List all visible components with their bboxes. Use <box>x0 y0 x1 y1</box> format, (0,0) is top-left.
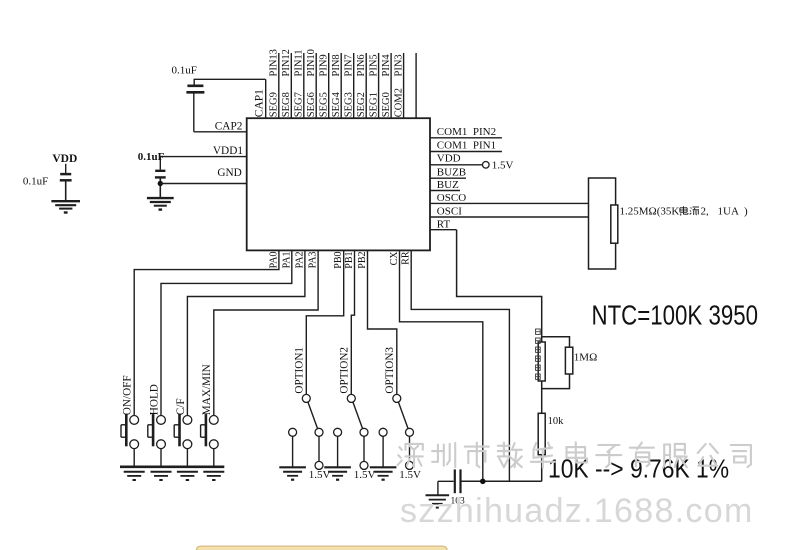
svg-text:BUZB: BUZB <box>437 166 466 178</box>
svg-text:PIN9: PIN9 <box>319 54 330 76</box>
svg-text:RT: RT <box>437 218 451 230</box>
svg-text:VDD: VDD <box>437 153 461 165</box>
svg-text:GND: GND <box>217 167 241 179</box>
svg-text:1.25MΩ(35K,: 1.25MΩ(35K, <box>620 206 683 218</box>
svg-text:PIN11: PIN11 <box>294 49 305 76</box>
svg-text:szzhihuadz.1688.com: szzhihuadz.1688.com <box>400 492 754 530</box>
svg-text:PIN6: PIN6 <box>356 54 367 76</box>
svg-text:PA3: PA3 <box>308 252 319 269</box>
svg-text:PA0: PA0 <box>268 252 279 269</box>
svg-text:2,: 2, <box>701 206 710 218</box>
svg-text:): ) <box>744 206 748 218</box>
svg-text:SEG0: SEG0 <box>381 92 392 117</box>
svg-text:COM1 PIN2: COM1 PIN2 <box>437 126 496 138</box>
svg-text:OPTION1: OPTION1 <box>294 347 306 394</box>
svg-text:PB2: PB2 <box>357 252 368 269</box>
svg-text:SEG4: SEG4 <box>331 91 342 117</box>
svg-text:ON/OFF: ON/OFF <box>122 375 134 415</box>
svg-text:OPTION2: OPTION2 <box>339 347 351 394</box>
svg-text:PA1: PA1 <box>281 252 292 269</box>
svg-text:PIN8: PIN8 <box>331 54 342 76</box>
svg-text:SEG5: SEG5 <box>319 92 330 117</box>
svg-text:PIN13: PIN13 <box>269 49 280 76</box>
svg-text:OPTION3: OPTION3 <box>384 347 396 394</box>
svg-text:COM2: COM2 <box>393 88 404 117</box>
svg-text:VDD1: VDD1 <box>213 145 243 157</box>
svg-text:CAP1: CAP1 <box>254 89 266 117</box>
svg-text:PB0: PB0 <box>333 252 344 269</box>
svg-text:SEG3: SEG3 <box>344 92 355 117</box>
svg-text:SEG8: SEG8 <box>281 92 292 117</box>
svg-text:SEG9: SEG9 <box>269 92 280 117</box>
svg-text:OSCI: OSCI <box>437 205 462 217</box>
svg-text:NTC=100K 3950: NTC=100K 3950 <box>592 300 758 331</box>
svg-text:1MΩ: 1MΩ <box>574 351 597 363</box>
svg-text:1.5V: 1.5V <box>399 469 421 481</box>
svg-text:0.1uF: 0.1uF <box>172 65 197 77</box>
svg-text:PB1: PB1 <box>344 252 355 269</box>
svg-text:SEG1: SEG1 <box>368 92 379 117</box>
svg-text:1.5V: 1.5V <box>354 469 376 481</box>
svg-text:10k: 10k <box>548 416 565 427</box>
svg-text:CAP2: CAP2 <box>215 120 243 132</box>
svg-text:SEG2: SEG2 <box>356 92 367 117</box>
svg-text:CX: CX <box>389 251 400 266</box>
svg-text:PIN4: PIN4 <box>381 54 392 77</box>
svg-text:PIN5: PIN5 <box>368 54 379 76</box>
svg-text:OSCO: OSCO <box>437 192 466 204</box>
svg-text:PIN7: PIN7 <box>344 54 355 76</box>
svg-text:0.1uF: 0.1uF <box>23 175 48 187</box>
svg-text:SEG7: SEG7 <box>294 92 305 117</box>
svg-text:MAX/MIN: MAX/MIN <box>201 364 213 415</box>
svg-text:1.5V: 1.5V <box>309 469 331 481</box>
svg-text:C/F: C/F <box>175 398 187 415</box>
svg-text:SEG6: SEG6 <box>306 92 317 117</box>
svg-text:PIN10: PIN10 <box>306 49 317 76</box>
svg-text:RR: RR <box>401 251 412 265</box>
svg-text:PA2: PA2 <box>294 252 305 269</box>
svg-text:BUZ: BUZ <box>437 179 459 191</box>
svg-text:1UA: 1UA <box>718 206 739 218</box>
svg-text:1.5V: 1.5V <box>492 159 514 171</box>
svg-text:VDD: VDD <box>52 153 77 165</box>
svg-text:HOLD: HOLD <box>148 384 160 415</box>
svg-text:PIN12: PIN12 <box>281 49 292 76</box>
svg-text:PIN3: PIN3 <box>393 54 404 76</box>
svg-text:COM1 PIN1: COM1 PIN1 <box>437 139 496 151</box>
